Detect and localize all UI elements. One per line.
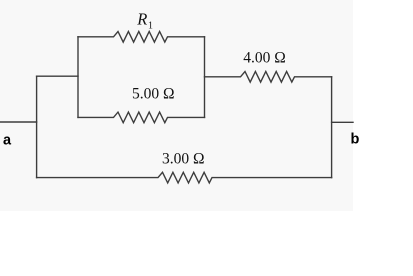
wire right vertical	[331, 77, 333, 178]
svg-text:5.00 Ω: 5.00 Ω	[132, 85, 175, 102]
svg-text:b: b	[351, 131, 360, 147]
wire box left edge	[77, 37, 79, 118]
wire left connector	[37, 75, 78, 77]
svg-text:R: R	[136, 10, 147, 29]
resistor R1 (top branch with zigzag)	[78, 32, 205, 43]
svg-text:a: a	[3, 132, 12, 148]
resistor 4.00 ohm (middle wire with zigzag)	[205, 72, 332, 83]
svg-text:4.00 Ω: 4.00 Ω	[243, 49, 286, 66]
wire b-stub	[332, 121, 353, 123]
resistor 3.00 ohm (bottom wire with zigzag)	[37, 172, 332, 183]
svg-text:1: 1	[148, 21, 153, 32]
svg-text:3.00 Ω: 3.00 Ω	[162, 150, 205, 167]
resistor 5.00 ohm (bottom branch with zigzag)	[78, 112, 205, 123]
wire left vertical	[36, 76, 38, 177]
background panel	[0, 0, 353, 211]
wire box right edge	[204, 37, 206, 118]
wire a-stub	[0, 121, 37, 123]
